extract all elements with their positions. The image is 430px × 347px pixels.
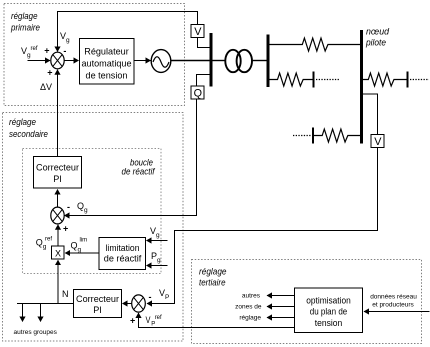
svg-text:tertiaire: tertiaire [199, 278, 226, 289]
svg-text:V: V [194, 26, 202, 38]
svg-text:ref: ref [45, 237, 52, 243]
svg-text:limitation: limitation [106, 243, 140, 253]
svg-text:du plan de: du plan de [310, 307, 348, 317]
svg-text:réglage: réglage [239, 315, 261, 322]
svg-text:PI: PI [53, 174, 62, 184]
svg-text:N: N [62, 289, 69, 299]
svg-text:g: g [66, 37, 70, 44]
svg-text:+: + [130, 316, 135, 326]
svg-text:de réactif: de réactif [122, 167, 156, 178]
svg-text:+: + [47, 68, 52, 78]
svg-text:zones de: zones de [235, 304, 262, 311]
svg-text:automatique: automatique [81, 58, 131, 68]
svg-text:réglage: réglage [11, 11, 38, 22]
svg-text:Q: Q [77, 201, 84, 211]
svg-text:ref: ref [155, 315, 162, 321]
svg-text:g: g [27, 52, 31, 59]
svg-text:-: - [67, 202, 70, 212]
svg-text:tension: tension [315, 318, 343, 328]
svg-text:réglage: réglage [9, 117, 36, 128]
svg-text:données réseau: données réseau [370, 294, 417, 301]
svg-text:g: g [84, 207, 88, 214]
svg-text:autres: autres [242, 293, 261, 300]
svg-text:optimisation: optimisation [306, 295, 351, 305]
svg-text:secondaire: secondaire [9, 129, 48, 140]
svg-text:P: P [165, 294, 169, 301]
svg-text:ΔV: ΔV [40, 82, 52, 92]
svg-text:réglage: réglage [199, 267, 227, 278]
svg-text:X: X [55, 249, 61, 259]
svg-text:PI: PI [93, 305, 102, 315]
svg-text:-: - [63, 46, 66, 56]
svg-text:Régulateur: Régulateur [84, 46, 129, 56]
svg-text:ref: ref [31, 46, 38, 52]
svg-text:V: V [146, 315, 151, 325]
svg-text:Correcteur: Correcteur [36, 163, 79, 173]
svg-text:g: g [78, 247, 82, 254]
svg-text:+: + [44, 46, 49, 56]
svg-text:g: g [157, 257, 161, 264]
svg-text:Q: Q [71, 241, 78, 251]
svg-text:+: + [63, 224, 68, 234]
svg-text:Q: Q [194, 88, 202, 100]
svg-text:de réactif: de réactif [104, 254, 142, 264]
svg-text:g: g [43, 244, 47, 251]
svg-text:nœud: nœud [366, 27, 390, 38]
svg-text:P: P [151, 322, 155, 328]
svg-text:g: g [156, 232, 160, 239]
svg-text:V: V [374, 136, 382, 148]
svg-text:Q: Q [36, 238, 43, 248]
svg-text:et producteurs: et producteurs [372, 302, 414, 309]
svg-text:autres groupes: autres groupes [14, 329, 58, 336]
svg-text:pilote: pilote [365, 38, 386, 49]
svg-text:lim: lim [80, 238, 88, 244]
svg-text:-: - [149, 292, 152, 302]
svg-text:Correcteur: Correcteur [76, 294, 119, 304]
svg-text:de tension: de tension [86, 70, 128, 80]
svg-text:primaire: primaire [10, 23, 40, 34]
